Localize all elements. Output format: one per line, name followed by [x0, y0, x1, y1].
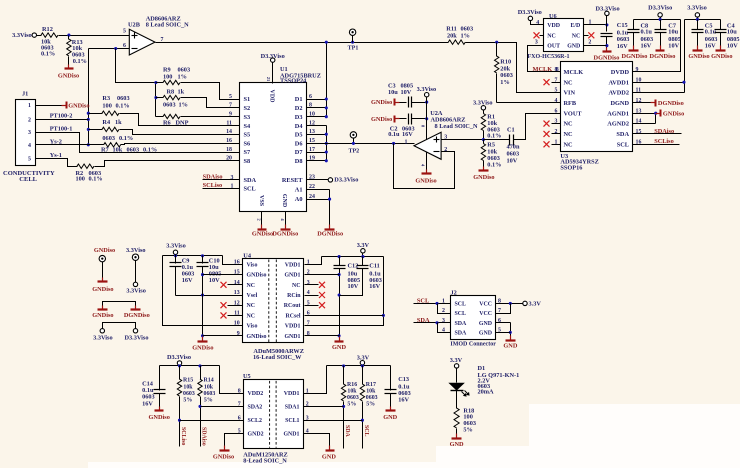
svg-text:D4: D4: [295, 123, 304, 130]
svg-text:GNDiso: GNDiso: [415, 177, 436, 184]
svg-text:1: 1: [405, 139, 408, 145]
wire R10 to RFB: [497, 102, 561, 104]
svg-text:Vsel: Vsel: [247, 293, 258, 299]
wire U2B output to R11: [156, 41, 449, 44]
ic U6 FXO-HC536R-1: [528, 13, 584, 60]
wire J1 pin3 PT100-1: [36, 126, 240, 153]
svg-text:RESET: RESET: [282, 177, 303, 184]
wire U6 GND: [584, 45, 607, 47]
ic U1 ADG715BRUZ: [226, 66, 321, 212]
svg-text:R5: R5: [487, 142, 495, 149]
svg-text:GND: GND: [322, 453, 336, 460]
resistor R12: [41, 26, 58, 57]
svg-text:GND: GND: [567, 44, 580, 50]
no-connect U4 pin11: [221, 312, 243, 318]
no-connect U4 pin12: [221, 302, 243, 308]
no-connect U3 pin2: [544, 131, 561, 137]
power terminal D3.3Viso (RESET): [328, 177, 358, 184]
ground GNDiso (C4): [711, 46, 732, 60]
svg-text:18: 18: [226, 147, 232, 153]
ground DGNDiso (C8): [622, 46, 648, 60]
svg-text:E/D: E/D: [570, 23, 580, 29]
svg-text:S7: S7: [244, 149, 251, 156]
svg-text:U6: U6: [549, 13, 557, 20]
resistor R7: [101, 143, 240, 154]
svg-text:3.3V: 3.3V: [450, 357, 463, 364]
net label SCLiso (U3): [633, 138, 680, 145]
capacitor C9: [170, 258, 195, 296]
svg-text:SCL: SCL: [455, 311, 467, 317]
power terminal D3.3Viso (C15): [596, 5, 620, 31]
svg-text:SDA: SDA: [244, 177, 257, 184]
svg-text:VDD1: VDD1: [285, 262, 301, 268]
wire U2A pin4: [426, 153, 428, 172]
connector J2: [442, 289, 501, 347]
svg-text:NC: NC: [247, 283, 256, 289]
wire U1 VSS: [256, 212, 261, 225]
wire U5 SDA1: [304, 406, 344, 408]
power terminal 3.3Viso (U4): [166, 242, 186, 254]
svg-text:2: 2: [555, 129, 558, 135]
svg-text:8: 8: [555, 67, 558, 73]
svg-text:RCsel: RCsel: [285, 313, 300, 319]
wire U3 DGND: [633, 102, 656, 104]
svg-text:2: 2: [28, 117, 31, 123]
no-connect U6 pin2: [584, 32, 595, 45]
svg-text:D5: D5: [295, 131, 303, 138]
svg-text:SSOP16: SSOP16: [560, 164, 582, 171]
capacitor C11: [340, 257, 382, 296]
svg-text:4: 4: [555, 98, 558, 104]
svg-text:GNDiso: GNDiso: [58, 73, 79, 80]
power terminal 3.3Viso (R1): [473, 99, 493, 113]
no-connect U6 pin3: [534, 32, 544, 45]
ground GNDiso (U3 AGND): [656, 110, 685, 118]
svg-text:U4: U4: [243, 252, 252, 259]
wire J1 pin5 Ys-1: [36, 152, 78, 167]
svg-text:FXO-HC536R-1: FXO-HC536R-1: [528, 54, 570, 60]
svg-text:D8: D8: [295, 158, 303, 165]
capacitor C4: [715, 20, 740, 50]
ic U4 ADuM5000ARWZ: [234, 252, 310, 361]
wire U4 GNDiso pins: [203, 275, 243, 336]
svg-text:C1: C1: [507, 126, 515, 133]
ground GNDiso (U1 VSS): [252, 225, 273, 238]
svg-text:AVDD2: AVDD2: [608, 90, 629, 97]
svg-text:J2: J2: [451, 289, 457, 296]
svg-text:VOUT: VOUT: [564, 110, 583, 117]
svg-text:5%: 5%: [204, 398, 213, 404]
svg-text:TSSOP24: TSSOP24: [280, 77, 307, 84]
no-connect U4 pin14: [221, 282, 243, 288]
ground GNDiso (C14): [149, 407, 170, 422]
svg-text:1%: 1%: [178, 73, 187, 80]
svg-text:5%: 5%: [463, 426, 472, 433]
ground DGNDiso (U3 DGND): [651, 100, 684, 108]
wire U2B -input net: [89, 47, 130, 50]
svg-text:1: 1: [28, 103, 31, 109]
svg-text:11: 11: [636, 88, 642, 94]
wire U4 Vsel: [176, 293, 243, 296]
power terminal D3.3Viso (U1 VDD): [261, 53, 285, 83]
net label SDAiso (U3): [633, 128, 682, 135]
svg-text:0603: 0603: [163, 101, 176, 108]
wire U1 D4-D8 bus: [307, 126, 328, 163]
power terminal D3.3Viso (C8/C7): [648, 5, 672, 20]
svg-text:10k: 10k: [183, 384, 193, 390]
ground GNDiso (R13): [58, 65, 79, 80]
svg-text:A1: A1: [295, 186, 303, 193]
svg-text:VDD1: VDD1: [284, 391, 300, 397]
wire U5 SCL2: [180, 420, 244, 422]
resistor R10: [495, 43, 513, 103]
svg-text:SDA: SDA: [455, 330, 468, 336]
net label SCLiso (U5): [180, 427, 186, 445]
svg-text:10u: 10u: [388, 89, 398, 96]
svg-text:D1: D1: [478, 365, 486, 372]
svg-text:10k: 10k: [347, 388, 357, 394]
svg-text:DGNDiso: DGNDiso: [622, 53, 648, 60]
svg-text:0603: 0603: [617, 36, 630, 43]
svg-text:RCin: RCin: [287, 293, 301, 299]
resistor R3: [89, 95, 240, 125]
svg-text:GNDiso: GNDiso: [247, 334, 267, 340]
svg-text:0.1%: 0.1%: [143, 147, 157, 154]
svg-text:PT100-1: PT100-1: [50, 126, 73, 133]
svg-text:GNDiso: GNDiso: [688, 53, 709, 60]
svg-text:100: 100: [76, 176, 85, 183]
svg-text:10V: 10V: [727, 42, 738, 49]
svg-text:10k: 10k: [366, 388, 376, 394]
resistor R2: [76, 161, 240, 183]
svg-text:SDAiso: SDAiso: [203, 173, 223, 180]
svg-text:GND: GND: [503, 343, 517, 350]
wire AVDD1/AVDD2: [633, 20, 686, 93]
svg-text:3: 3: [535, 39, 538, 45]
svg-text:7: 7: [229, 103, 232, 109]
svg-text:5%: 5%: [366, 401, 375, 407]
svg-text:GND2: GND2: [248, 432, 264, 438]
wire J2 GND: [496, 323, 512, 339]
svg-text:GNDiso: GNDiso: [92, 312, 113, 319]
svg-text:SCL: SCL: [455, 301, 467, 307]
svg-text:10u: 10u: [727, 29, 737, 36]
capacitor C15: [601, 22, 630, 51]
net label SDA (J2): [414, 317, 451, 333]
svg-text:16V: 16V: [182, 277, 193, 284]
svg-text:GND: GND: [383, 414, 397, 421]
svg-text:SDAiso: SDAiso: [654, 128, 674, 135]
svg-text:S2: S2: [244, 105, 251, 112]
svg-text:VDD: VDD: [547, 23, 560, 29]
wire U4 3.3V bus: [305, 255, 385, 325]
svg-text:GND: GND: [450, 441, 464, 448]
net label SDAiso (U5): [200, 427, 206, 446]
svg-text:0603: 0603: [507, 150, 520, 157]
no-connect U3 pin3: [544, 121, 561, 127]
svg-text:VSS: VSS: [258, 195, 264, 207]
ground GNDiso (R5): [473, 167, 494, 182]
svg-text:SCL: SCL: [363, 425, 369, 437]
op-amp U2B: [123, 15, 189, 55]
svg-text:R17: R17: [366, 382, 376, 388]
svg-text:15: 15: [636, 129, 642, 135]
svg-text:4: 4: [28, 143, 31, 149]
svg-text:470n: 470n: [507, 143, 520, 150]
net label SCL (J2): [414, 297, 451, 313]
svg-text:SCL: SCL: [617, 141, 629, 148]
resistor R5: [481, 140, 501, 169]
ground GNDiso (U2A): [415, 170, 436, 185]
svg-text:100: 100: [163, 73, 172, 80]
svg-text:SDA: SDA: [455, 321, 468, 327]
svg-text:3.3Viso: 3.3Viso: [166, 242, 186, 249]
svg-text:10k: 10k: [113, 147, 123, 154]
wire D6 to U2A output: [307, 142, 415, 145]
svg-text:0.1%: 0.1%: [89, 176, 103, 183]
svg-text:5: 5: [123, 29, 126, 35]
svg-text:R7: R7: [101, 147, 109, 154]
capacitor C1: [484, 114, 561, 165]
svg-text:6: 6: [309, 94, 312, 100]
svg-text:16V: 16V: [617, 43, 628, 50]
svg-text:0603: 0603: [366, 395, 378, 401]
svg-text:3: 3: [231, 175, 234, 181]
svg-text:16V: 16V: [402, 131, 413, 138]
svg-text:4: 4: [536, 20, 539, 26]
capacitor C8: [628, 20, 654, 50]
wire R11 to VIN: [466, 41, 561, 93]
svg-text:NC: NC: [564, 131, 574, 138]
resistor R6 DNP: [156, 114, 240, 126]
wire U5 GND1: [304, 434, 330, 449]
svg-text:D1: D1: [295, 96, 303, 103]
power terminal 3.3Viso (C5/C4): [687, 5, 707, 20]
resistor R13: [67, 36, 87, 65]
svg-text:C15: C15: [617, 22, 628, 29]
wire U5 GND2: [225, 434, 244, 449]
ground GND (U5 GND1): [322, 446, 336, 461]
svg-text:8 Lead SOIC_N: 8 Lead SOIC_N: [146, 22, 189, 29]
svg-text:S1: S1: [244, 96, 251, 103]
power terminal 3.3V (U5): [357, 355, 370, 366]
power terminal 3.3V (J2): [523, 300, 542, 307]
net-tie GNDiso-DGNDiso: [103, 302, 136, 309]
svg-text:GNDiso: GNDiso: [213, 453, 234, 460]
svg-text:NC: NC: [292, 283, 301, 289]
svg-text:GNDiso: GNDiso: [371, 99, 392, 106]
svg-text:AGND1: AGND1: [607, 110, 629, 117]
svg-text:10V: 10V: [401, 89, 412, 96]
svg-text:D2: D2: [295, 105, 303, 112]
svg-text:20k: 20k: [447, 33, 457, 40]
svg-text:16V: 16V: [369, 283, 380, 290]
capacitor C2: [388, 114, 428, 139]
svg-text:S4: S4: [244, 123, 252, 130]
svg-text:9: 9: [229, 112, 232, 118]
svg-text:DGND: DGND: [610, 100, 629, 107]
svg-text:16V: 16V: [641, 42, 652, 49]
white margin patches: [88, 404, 740, 468]
svg-text:5%: 5%: [183, 398, 192, 404]
capacitor C7: [655, 20, 681, 50]
ground GNDiso (C3): [371, 99, 400, 107]
op-amp U2A: [405, 110, 478, 167]
svg-text:SCLiso: SCLiso: [654, 138, 674, 145]
wire R9/R8/R6 left bus: [154, 81, 157, 117]
svg-text:6: 6: [555, 108, 558, 114]
wire R12 to U2B pin5: [59, 34, 130, 37]
svg-text:1: 1: [231, 184, 234, 190]
svg-text:1%: 1%: [179, 101, 188, 108]
svg-text:R11: R11: [446, 25, 457, 32]
wire U5 SCL1: [304, 420, 363, 422]
resistor R9: [156, 66, 240, 99]
svg-text:0603: 0603: [117, 95, 130, 102]
no-connect U4 pin3: [305, 282, 326, 288]
svg-text:R6: R6: [163, 120, 171, 127]
capacitor C3: [388, 82, 428, 107]
svg-text:IMOD Connector: IMOD Connector: [450, 341, 496, 347]
ground GND (R18): [450, 434, 464, 449]
svg-text:TP2: TP2: [348, 149, 359, 155]
capacitor C14: [142, 366, 165, 409]
svg-text:C13: C13: [398, 376, 409, 383]
svg-text:SDA: SDA: [344, 425, 350, 438]
svg-text:SDA2: SDA2: [248, 404, 263, 410]
wire U5 left bus: [160, 364, 244, 393]
svg-text:R16: R16: [347, 382, 357, 388]
svg-text:AGND2: AGND2: [607, 121, 629, 128]
svg-text:R3: R3: [102, 95, 110, 102]
wire J1 pin1: [36, 105, 67, 107]
svg-text:0603: 0603: [461, 25, 474, 32]
power terminal D3.3Viso (U5): [167, 354, 191, 366]
svg-text:RCout: RCout: [284, 303, 301, 309]
svg-text:0.1%: 0.1%: [487, 162, 501, 169]
svg-text:U5: U5: [243, 373, 251, 380]
svg-text:DGNDiso: DGNDiso: [272, 230, 298, 237]
svg-text:20mA: 20mA: [478, 388, 495, 395]
svg-text:A0: A0: [295, 196, 303, 203]
svg-text:16: 16: [226, 138, 232, 144]
svg-text:14: 14: [226, 129, 232, 135]
ic U3 AD5934YRSZ: [555, 62, 642, 172]
svg-text:R14: R14: [204, 378, 214, 384]
svg-text:SCLiso: SCLiso: [180, 427, 186, 445]
svg-text:Ys-2: Ys-2: [50, 138, 62, 145]
wire U4 RCsel: [305, 315, 384, 317]
svg-text:DGNDiso: DGNDiso: [650, 53, 676, 60]
connector J1: [3, 90, 55, 183]
svg-text:0603: 0603: [178, 66, 191, 73]
net label SCL (U5): [363, 425, 369, 437]
ground DGNDiso (C15): [594, 48, 620, 62]
svg-text:2: 2: [588, 39, 591, 45]
svg-text:1%: 1%: [461, 33, 470, 40]
svg-text:10k: 10k: [204, 384, 214, 390]
no-connect U4 pin5: [305, 302, 326, 308]
svg-text:Viso: Viso: [247, 324, 258, 330]
svg-text:GND1: GND1: [284, 334, 300, 340]
svg-text:S6: S6: [244, 141, 251, 148]
resistor R18: [454, 407, 476, 436]
no-connect U3 pin7: [544, 79, 561, 85]
svg-text:0603: 0603: [347, 395, 359, 401]
wire J1 pin4 Ys-2: [36, 138, 104, 145]
ground GNDiso (J1 pin1): [62, 102, 90, 110]
wire feedback to R9/R8: [116, 49, 156, 83]
svg-text:NC: NC: [564, 121, 574, 128]
resistor R17: [360, 366, 377, 449]
svg-text:10V: 10V: [348, 283, 359, 290]
svg-text:5%: 5%: [347, 401, 356, 407]
ground GNDiso (C5): [688, 46, 709, 60]
svg-text:5: 5: [28, 157, 31, 163]
resistor R14: [198, 366, 216, 447]
svg-text:GNDiso: GNDiso: [92, 286, 113, 293]
svg-text:1%: 1%: [500, 79, 509, 86]
svg-text:MCLK: MCLK: [533, 66, 553, 73]
svg-text:20: 20: [226, 156, 232, 162]
test point TP2: [348, 132, 359, 155]
svg-text:16V: 16V: [398, 397, 409, 404]
wire U1 D1-D3 bus: [307, 41, 328, 119]
svg-text:GND: GND: [281, 194, 287, 208]
power terminal 3.3Viso (U2A): [417, 86, 437, 139]
svg-text:U2B: U2B: [128, 21, 141, 28]
svg-text:16V: 16V: [142, 400, 153, 407]
svg-text:DGNDiso: DGNDiso: [124, 312, 150, 319]
wire U1 A1/A0: [307, 190, 332, 226]
svg-text:DVDD: DVDD: [611, 69, 630, 76]
svg-text:GND1: GND1: [283, 432, 299, 438]
svg-text:3.3Viso: 3.3Viso: [687, 5, 707, 12]
svg-text:8-Lead SOIC_N: 8-Lead SOIC_N: [243, 458, 287, 465]
svg-text:10: 10: [636, 77, 642, 83]
resistor R1: [481, 114, 501, 142]
svg-text:AVDD1: AVDD1: [608, 79, 629, 86]
svg-text:10u: 10u: [668, 29, 678, 36]
svg-text:12: 12: [636, 98, 642, 104]
svg-text:1: 1: [589, 20, 592, 26]
no-connect U4 pin4: [305, 292, 326, 298]
svg-text:3.3V: 3.3V: [529, 300, 542, 307]
svg-text:21: 21: [266, 77, 271, 82]
svg-text:S8: S8: [244, 158, 251, 165]
wire U1 GND: [280, 212, 286, 225]
svg-text:GNDiso: GNDiso: [252, 230, 273, 237]
svg-text:D3.3Viso: D3.3Viso: [334, 177, 358, 184]
svg-text:1k: 1k: [178, 89, 185, 96]
svg-text:VCC: VCC: [479, 301, 492, 307]
svg-text:3: 3: [28, 130, 31, 136]
svg-text:10V: 10V: [507, 158, 518, 165]
svg-text:100: 100: [102, 102, 111, 109]
svg-text:D3.3Viso: D3.3Viso: [167, 354, 191, 361]
svg-text:VDD1: VDD1: [285, 324, 301, 330]
svg-text:DGNDiso: DGNDiso: [658, 100, 684, 107]
svg-text:S5: S5: [244, 131, 251, 138]
svg-text:17: 17: [309, 147, 315, 153]
power terminal 3.3Viso (tp): [126, 282, 146, 294]
svg-text:C11: C11: [369, 263, 380, 270]
svg-text:SCL2: SCL2: [248, 418, 262, 424]
net label SDAiso (U1): [203, 173, 240, 181]
ground GNDiso (U5 GND2): [213, 446, 234, 461]
wire J2 VCC: [496, 302, 523, 314]
resistor R15: [177, 366, 195, 447]
